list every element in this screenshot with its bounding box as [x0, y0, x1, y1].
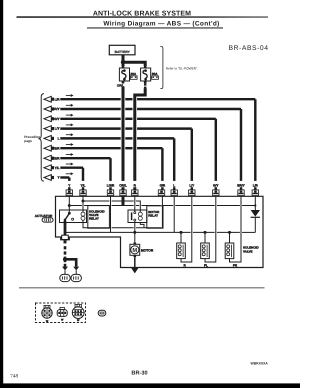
direction arrow row L/Y [66, 123, 74, 126]
solenoid valve FR [225, 243, 238, 267]
wire OR/L stub to H2 [122, 196, 125, 206]
wire row L [60, 137, 174, 139]
wire G/R down to relay coil return [161, 196, 163, 228]
wire OR/L vertical feed (20A fuse to OR/L terminal) [122, 87, 125, 190]
label SOLENOID VALVE RELAY [88, 206, 110, 229]
svg-text:LG/R: LG/R [52, 156, 60, 160]
wire B ground from relay switch [64, 221, 67, 236]
wire row L/R [60, 98, 255, 100]
wire motor relay switch to bus [134, 221, 136, 243]
svg-text:L/Y: L/Y [55, 127, 61, 131]
diode D1 [251, 210, 260, 217]
wire bus to solenoid FR [229, 232, 231, 243]
svg-text:L: L [173, 183, 175, 187]
preceding page brace and label [24, 94, 44, 182]
gray separator line [19, 287, 265, 289]
page connector arrow BR/Y [44, 106, 54, 112]
node bus/solenoid FL [204, 231, 207, 234]
svg-text:20A: 20A [130, 72, 137, 76]
wire junction to 30A fuse branch [123, 62, 145, 66]
terminal L [168, 181, 180, 196]
svg-text:Refer to “EL-POWER”.: Refer to “EL-POWER”. [166, 66, 198, 70]
bus wire (solenoid/diode common) [65, 231, 255, 233]
solenoid valve relay coil [81, 212, 85, 220]
page connector arrow L [44, 136, 54, 142]
page bottom black bar [0, 383, 300, 388]
terminal G/R [156, 181, 168, 196]
bottom connector legend placeholder [36, 303, 106, 323]
svg-text:L/R: L/R [253, 183, 259, 187]
wire H1: Y/L node to motor relay coil [85, 201, 141, 212]
page connector arrow Y [44, 175, 54, 181]
page connector arrow Y/L [44, 165, 54, 171]
terminal R [129, 181, 141, 196]
terminal BR/Y [235, 181, 247, 196]
label ACTUATOR [35, 214, 53, 222]
wire row BR/Y [60, 108, 241, 110]
direction arrow row Y [66, 172, 74, 175]
wire drop Y to terminal [68, 178, 70, 190]
node ground split [63, 257, 67, 261]
connector pass-through on box edge [61, 235, 69, 243]
wire R feed dashed segment under 30A fuse [144, 84, 146, 89]
svg-text:Wiring Diagram — ABS — (Cont'd: Wiring Diagram — ABS — (Cont'd) [103, 20, 219, 27]
node motor/bus junction [133, 231, 136, 234]
direction arrow row L [66, 133, 74, 136]
terminal L/Y [186, 181, 198, 196]
svg-text:748: 748 [10, 374, 18, 380]
wire drop G/Y to terminal [215, 119, 217, 190]
svg-text:Y/L: Y/L [81, 183, 86, 187]
terminal LG/R [105, 181, 117, 196]
wire drop G/R to terminal [161, 148, 163, 190]
actuator assembly region placeholder [35, 181, 263, 282]
wire drop Y/L to terminal [82, 168, 84, 190]
svg-text:WBRXXXA: WBRXXXA [251, 362, 269, 366]
svg-text:BR-ABS-04: BR-ABS-04 [229, 45, 269, 52]
direction arrow row G/R [66, 143, 74, 146]
left page-connector arrows and horizontal wire rows (inserted by script section below) [44, 94, 255, 190]
svg-text:VALVE: VALVE [243, 249, 253, 253]
battery B1 [109, 45, 135, 55]
wire battery to junction [122, 55, 125, 62]
wire B dashed to ground junction [64, 246, 67, 258]
svg-text:page: page [24, 139, 32, 143]
wire bus to solenoid FL [204, 232, 206, 243]
solenoid valve relay switch [64, 212, 74, 221]
svg-text:OR/L: OR/L [119, 183, 127, 187]
wire ground branch left [64, 259, 67, 267]
ground motor (arrow) [131, 267, 139, 273]
node H2/diode junction [254, 204, 256, 206]
header title [17, 11, 269, 29]
svg-text:G/R: G/R [160, 183, 166, 187]
svg-text:MOTOR: MOTOR [141, 248, 154, 252]
wire drop L to terminal [173, 138, 175, 189]
terminal L/R [249, 181, 261, 196]
bracket refer to EL-POWER [160, 47, 198, 89]
wire Y/L into relay coil [82, 196, 84, 212]
terminal Y/L [77, 181, 89, 196]
svg-text:Y/L: Y/L [55, 166, 60, 170]
direction arrow row BR/Y [66, 104, 74, 107]
wire L down to bus [173, 196, 175, 232]
svg-text:FL: FL [204, 263, 208, 267]
wire H2: Y node to diode column [71, 205, 256, 207]
junction node battery feed [121, 60, 125, 64]
svg-text:BR/Y: BR/Y [237, 183, 245, 187]
node bus/solenoid R [180, 231, 183, 234]
wire row LG/R [60, 157, 110, 159]
svg-text:RELAY: RELAY [148, 213, 158, 217]
motor M1 [130, 243, 154, 258]
wire Y into solenoid valve relay [68, 196, 70, 212]
ground E41 [60, 267, 70, 282]
fusible link 30A (right) [141, 65, 151, 84]
wire diode to bus [254, 218, 256, 233]
wire R into motor relay switch [134, 196, 136, 211]
svg-text:M: M [132, 248, 137, 254]
node Y/L / H1 junction [82, 200, 85, 203]
wire LG/R down to bus [110, 196, 112, 232]
svg-text:BR/Y: BR/Y [52, 107, 60, 111]
direction arrow row G/Y [66, 114, 74, 117]
connector legend box [36, 303, 86, 323]
svg-text:BR-30: BR-30 [131, 370, 147, 376]
connector face C2 [57, 307, 67, 321]
wire solenoid R return [181, 196, 192, 262]
svg-text:LG/R: LG/R [107, 183, 115, 187]
motor relay box [128, 210, 147, 223]
wire row G/R [60, 147, 162, 149]
terminal OR/L [117, 181, 129, 196]
value label 30A + fuse icon [152, 72, 159, 79]
ground E50 [71, 267, 81, 282]
wire bus to solenoid R [180, 232, 182, 243]
wire solenoid FR return [230, 196, 242, 262]
wire L/R to diode [254, 196, 256, 210]
node bus/solenoid FR [228, 231, 231, 234]
label SOLENOID VALVE [243, 246, 260, 254]
wire row L/Y [60, 127, 192, 129]
svg-text:L: L [58, 137, 60, 141]
page connector arrow G/Y [44, 116, 54, 122]
wire solenoid FL return [205, 196, 216, 262]
svg-text:BATTERY: BATTERY [115, 50, 131, 54]
wire junction to 20A fuse [122, 62, 125, 66]
connector face C1 [42, 305, 52, 322]
direction arrow row Y/L [66, 163, 74, 166]
direction arrow row LG/R [66, 153, 74, 156]
svg-text:FR: FR [233, 263, 238, 267]
motor relay switch [132, 212, 136, 221]
direction arrow row L/R [66, 94, 74, 97]
svg-text:L/Y: L/Y [189, 183, 195, 187]
connector face C3 [72, 304, 84, 322]
solenoid valve FL [201, 243, 210, 267]
svg-text:G/R: G/R [54, 146, 60, 150]
wire relay coil return to G/R [83, 220, 162, 228]
fusible link 20A (left) [119, 65, 129, 84]
svg-text:L/R: L/R [54, 97, 60, 101]
wire row G/Y [60, 118, 216, 120]
solenoid valve relay box [60, 210, 87, 223]
page connector arrow L/Y [44, 126, 54, 132]
connector ref oval [98, 310, 106, 316]
wire R feed elbow (30A fuse down, left, down to R terminal) [135, 88, 145, 190]
node Y / H2 junction [68, 204, 71, 207]
label MOTOR RELAY [147, 206, 163, 228]
motor relay coil [138, 212, 142, 220]
wire row Y [60, 176, 69, 178]
svg-text:RELAY: RELAY [89, 216, 99, 220]
wire drop L/R to terminal [254, 99, 256, 190]
terminal G/Y [210, 181, 222, 196]
svg-text:G/Y: G/Y [213, 183, 219, 187]
page connector arrow G/R [44, 145, 54, 151]
wire drop L/Y to terminal [191, 129, 193, 190]
wire ground branch right [65, 259, 76, 266]
page connector arrow L/R [44, 96, 54, 102]
svg-text:30A: 30A [152, 72, 159, 76]
terminal Y [63, 181, 75, 196]
wire drop BR/Y to terminal [240, 109, 242, 190]
solenoid valve R [177, 243, 187, 267]
ABS actuator box [56, 196, 264, 267]
svg-text:G/Y: G/Y [54, 117, 60, 121]
value label 20A + fuse icon [130, 72, 137, 79]
wire row Y/L [60, 166, 83, 168]
page connector arrow LG/R [44, 155, 54, 161]
page left black edge [0, 0, 3, 388]
wire drop LG/R to terminal [109, 158, 111, 190]
wire motor to ground [134, 257, 136, 267]
